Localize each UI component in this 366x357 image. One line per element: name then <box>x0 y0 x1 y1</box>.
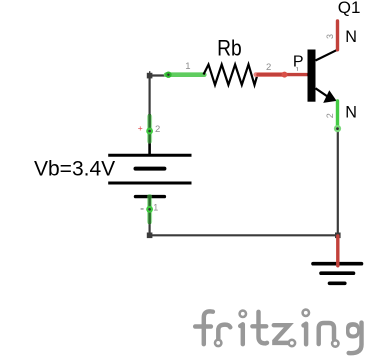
svg-text:2: 2 <box>266 62 271 73</box>
svg-text:Q1: Q1 <box>338 0 361 17</box>
svg-text:P: P <box>293 54 304 71</box>
svg-text:1: 1 <box>153 202 158 212</box>
svg-text:Rb: Rb <box>217 35 242 60</box>
svg-text:N: N <box>345 28 357 46</box>
svg-text:N: N <box>345 104 357 122</box>
svg-text:+: + <box>138 123 143 133</box>
svg-text:2: 2 <box>155 124 160 135</box>
svg-text:2: 2 <box>325 113 335 118</box>
svg-text:3: 3 <box>325 34 335 39</box>
svg-text:1: 1 <box>185 61 190 72</box>
svg-text:Vb=3.4V: Vb=3.4V <box>34 158 115 181</box>
